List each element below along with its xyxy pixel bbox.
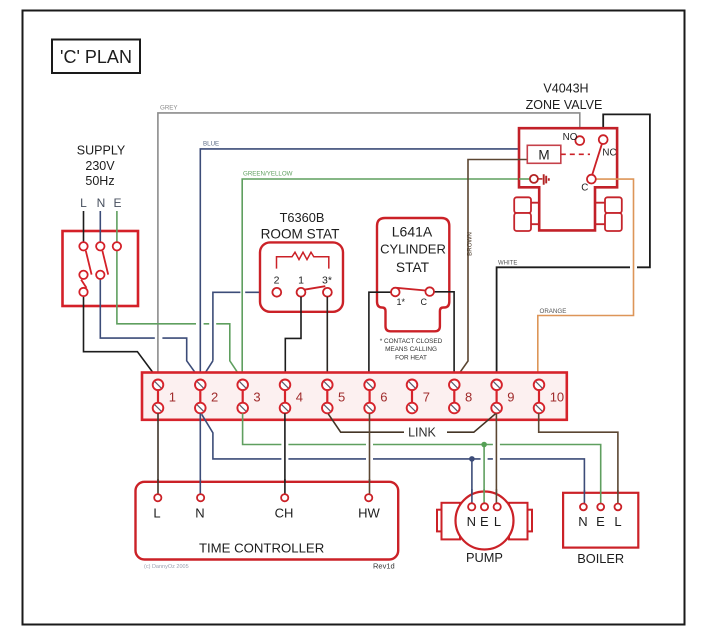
svg-text:LINK: LINK [408, 426, 436, 440]
svg-text:Rev1d: Rev1d [373, 562, 395, 571]
svg-text:L641A: L641A [392, 223, 433, 239]
svg-text:V4043H: V4043H [543, 82, 588, 96]
svg-text:M: M [538, 147, 549, 162]
svg-text:E: E [113, 196, 121, 210]
svg-text:3*: 3* [322, 275, 332, 287]
svg-text:BLUE: BLUE [203, 141, 219, 148]
svg-text:1*: 1* [397, 297, 406, 307]
svg-text:BOILER: BOILER [577, 551, 624, 566]
svg-text:4: 4 [296, 389, 303, 404]
svg-text:MEANS CALLING: MEANS CALLING [385, 346, 437, 353]
svg-text:T6360B: T6360B [280, 210, 325, 225]
svg-text:PUMP: PUMP [466, 550, 503, 565]
svg-text:STAT: STAT [396, 260, 430, 275]
svg-text:(c) DannyOz 2005: (c) DannyOz 2005 [144, 564, 189, 570]
svg-text:E: E [480, 514, 489, 529]
svg-text:L: L [80, 196, 87, 210]
svg-text:3: 3 [253, 389, 260, 404]
svg-text:BROWN: BROWN [467, 232, 474, 256]
svg-text:TIME CONTROLLER: TIME CONTROLLER [199, 541, 324, 556]
svg-text:HW: HW [358, 506, 380, 521]
svg-text:CH: CH [275, 506, 294, 521]
svg-text:ZONE VALVE: ZONE VALVE [526, 98, 603, 112]
svg-text:6: 6 [380, 389, 387, 404]
svg-text:CYLINDER: CYLINDER [380, 242, 446, 257]
svg-text:C: C [581, 183, 588, 194]
svg-text:N: N [97, 196, 106, 210]
svg-text:ROOM STAT: ROOM STAT [261, 227, 340, 242]
svg-text:FOR HEAT: FOR HEAT [395, 354, 427, 361]
svg-text:8: 8 [465, 389, 472, 404]
svg-text:2: 2 [274, 275, 280, 287]
svg-text:WHITE: WHITE [498, 261, 517, 267]
svg-text:2: 2 [211, 389, 218, 404]
svg-text:GREEN/YELLOW: GREEN/YELLOW [243, 171, 293, 178]
svg-text:NC: NC [602, 147, 616, 158]
svg-text:* CONTACT CLOSED: * CONTACT CLOSED [380, 338, 443, 345]
svg-text:L: L [494, 514, 501, 529]
svg-text:L: L [614, 514, 621, 529]
svg-text:C: C [421, 297, 428, 307]
svg-text:N: N [467, 514, 476, 529]
svg-text:10: 10 [550, 389, 564, 404]
svg-text:9: 9 [507, 389, 514, 404]
svg-text:5: 5 [338, 389, 345, 404]
svg-text:L: L [153, 506, 160, 521]
svg-text:NO: NO [563, 132, 578, 143]
svg-text:ORANGE: ORANGE [540, 308, 567, 315]
svg-text:N: N [578, 514, 587, 529]
svg-text:N: N [195, 506, 204, 521]
svg-text:GREY: GREY [160, 105, 178, 112]
svg-text:7: 7 [423, 389, 430, 404]
svg-text:1: 1 [169, 389, 176, 404]
svg-text:SUPPLY: SUPPLY [77, 144, 126, 158]
svg-text:'C' PLAN: 'C' PLAN [60, 47, 132, 67]
svg-text:1: 1 [298, 275, 304, 287]
svg-text:E: E [596, 514, 605, 529]
svg-text:230V: 230V [85, 159, 115, 173]
svg-text:50Hz: 50Hz [85, 174, 114, 188]
